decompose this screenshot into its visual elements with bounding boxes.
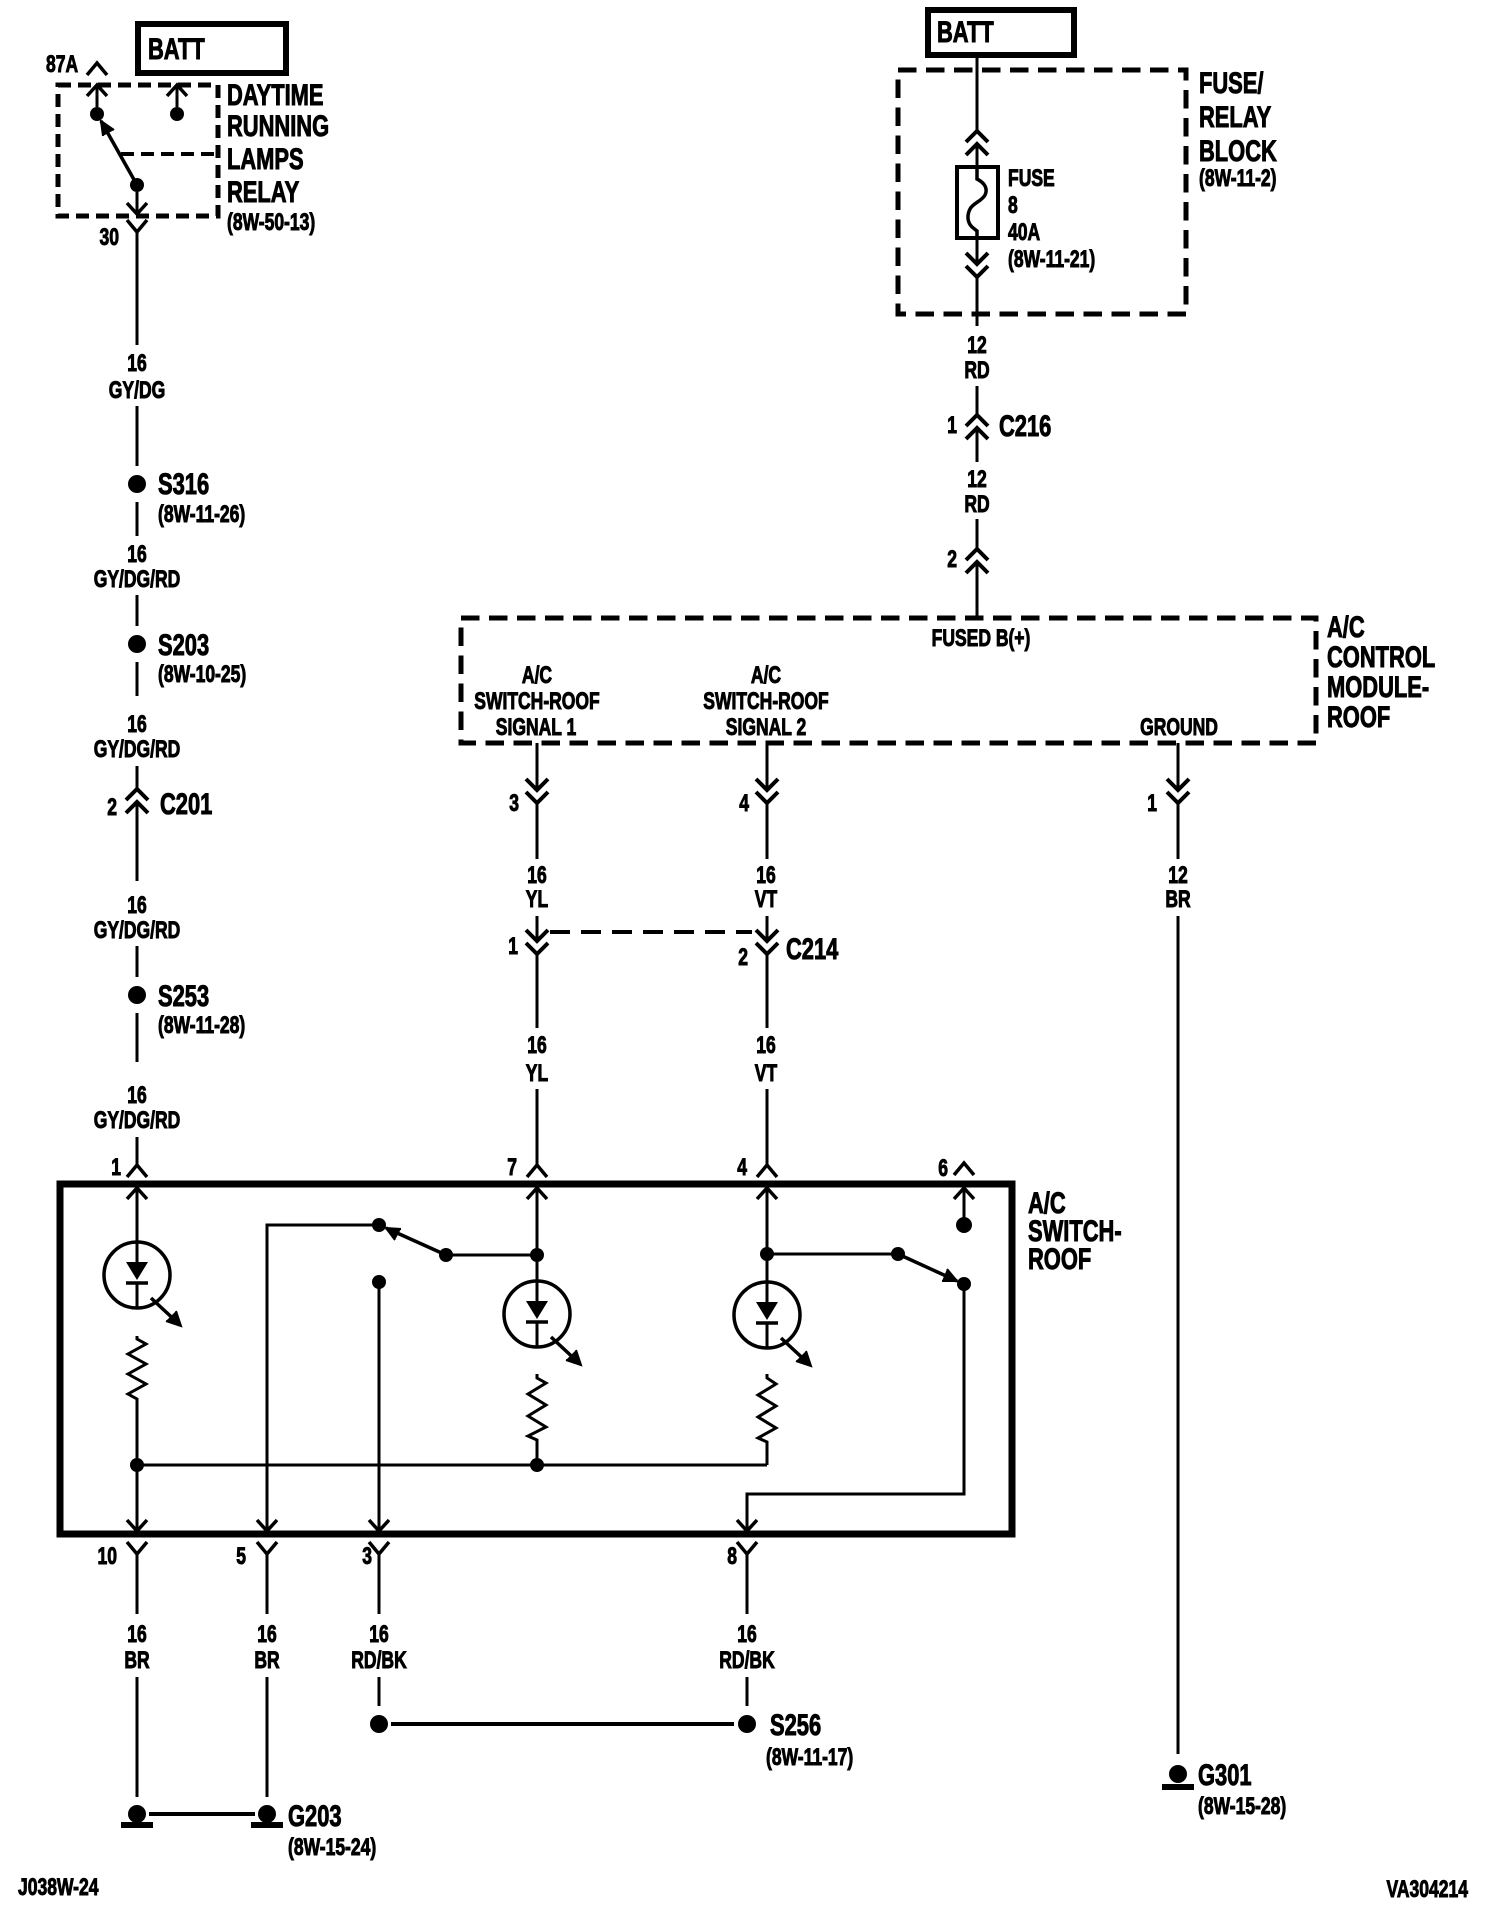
A/C control module-roof box	[461, 618, 1316, 743]
in-block connector (double chevron) above fuse	[966, 131, 988, 155]
svg-text:C216: C216	[999, 409, 1051, 443]
wire 16 BR (pin 5 to G203)	[254, 1554, 279, 1797]
svg-text:(8W-11-2): (8W-11-2)	[1199, 165, 1276, 191]
fuse/relay block box	[898, 70, 1186, 314]
connector Y at switch pin 10	[98, 1542, 147, 1570]
label A/C CONTROL MODULE-ROOF	[1327, 610, 1435, 734]
wire R1 to junction	[136, 1402, 139, 1465]
label pin 30	[100, 224, 119, 250]
svg-text:C201: C201	[160, 787, 212, 821]
wire 16 VT (module pin 4 to C214 pin 2)	[755, 803, 778, 941]
svg-text:GY/DG/RD: GY/DG/RD	[94, 917, 181, 943]
svg-text:J038W-24: J038W-24	[18, 1874, 99, 1900]
svg-text:(8W-50-13): (8W-50-13)	[227, 209, 315, 235]
wire 12 RD (C216 to module pin 2)	[964, 428, 989, 549]
svg-text:YL: YL	[526, 1060, 549, 1086]
switch 2 arm	[898, 1254, 957, 1281]
wire contact to switch pin 5	[267, 1225, 379, 1531]
svg-text:16: 16	[257, 1621, 276, 1647]
wire 16 GY/DG/RD (S203 to C201)	[94, 662, 181, 789]
svg-text:BATT: BATT	[937, 15, 994, 49]
svg-text:16: 16	[737, 1621, 756, 1647]
svg-text:16: 16	[127, 541, 146, 567]
connector Y at switch pin 1	[111, 1154, 147, 1180]
svg-text:BR: BR	[1165, 886, 1190, 912]
switch 1 feed line	[446, 1254, 537, 1257]
switch 2 movable contact dot	[891, 1247, 905, 1261]
svg-text:3: 3	[509, 790, 519, 816]
svg-text:RD/BK: RD/BK	[351, 1647, 406, 1673]
svg-text:16: 16	[127, 1621, 146, 1647]
svg-text:G203: G203	[288, 1799, 342, 1833]
module connector pin 2 (double chevron)	[947, 546, 988, 573]
svg-text:FUSE/: FUSE/	[1199, 66, 1264, 100]
svg-text:16: 16	[527, 862, 546, 888]
wire switch 2 contact to pin 8	[747, 1284, 964, 1531]
switch 1 contact dot (to pin 3)	[372, 1275, 386, 1289]
label 87A	[46, 51, 78, 77]
svg-text:12: 12	[1168, 862, 1187, 888]
svg-text:SWITCH-ROOF: SWITCH-ROOF	[703, 688, 829, 714]
wire 16 GY/DG/RD (S316 to S203)	[94, 502, 181, 626]
switch pin 7 arrow	[527, 1188, 547, 1255]
switch pin 4 arrow	[757, 1188, 777, 1254]
connector Y at switch pin 5	[236, 1542, 277, 1570]
switch 1 contact dot (to pin 5)	[372, 1218, 386, 1232]
relay pin 86/BATT terminal (arrow and contact dot)	[167, 85, 187, 121]
ground G301	[1162, 1758, 1286, 1820]
svg-text:1: 1	[508, 933, 518, 959]
svg-text:(8W-11-26): (8W-11-26)	[158, 501, 245, 527]
svg-text:1: 1	[111, 1154, 121, 1180]
svg-text:(8W-11-28): (8W-11-28)	[158, 1012, 245, 1038]
wire fuse to in-block connector	[976, 238, 979, 264]
svg-text:40A: 40A	[1008, 219, 1040, 245]
svg-text:A/C: A/C	[522, 662, 552, 688]
switch 1 movable contact dot	[439, 1248, 453, 1262]
svg-text:(8W-11-21): (8W-11-21)	[1008, 246, 1095, 272]
svg-text:C214: C214	[786, 932, 839, 966]
relay pin 30 arrow	[127, 192, 147, 214]
svg-text:(8W-11-17): (8W-11-17)	[766, 1744, 853, 1770]
label A/C SWITCH-ROOF SIGNAL 1	[474, 662, 600, 740]
switch 2 contact dot (to pin 8)	[957, 1277, 971, 1291]
svg-text:8: 8	[727, 1543, 737, 1569]
wire 12 RD (fuse block to C216)	[964, 277, 989, 415]
svg-text:(8W-10-25): (8W-10-25)	[158, 661, 246, 687]
svg-text:8: 8	[1008, 192, 1018, 218]
svg-text:6: 6	[938, 1155, 948, 1181]
svg-text:LAMPS: LAMPS	[227, 142, 304, 176]
svg-text:7: 7	[507, 1154, 517, 1180]
svg-text:RELAY: RELAY	[227, 175, 300, 209]
connector C214 pin 1	[508, 930, 548, 960]
svg-text:G301: G301	[1198, 1758, 1252, 1792]
connector C201 pin 2	[107, 787, 212, 821]
svg-text:(8W-15-24): (8W-15-24)	[288, 1834, 376, 1860]
wire R3 to junction bus	[766, 1446, 769, 1465]
svg-text:FUSE: FUSE	[1008, 165, 1055, 191]
junction dot pin 10 branch	[130, 1458, 144, 1472]
wire 16 GY/DG/RD (S253 to A/C switch pin 1)	[94, 1013, 181, 1165]
lamp LED1 (switch illumination)	[104, 1242, 181, 1326]
wire BATT to fuse block connector	[976, 58, 979, 131]
wire pin 2 into module	[976, 562, 979, 618]
wire pin 4 to LED3	[766, 1254, 769, 1282]
svg-text:BLOCK: BLOCK	[1199, 134, 1277, 168]
wire pin 7 to LED2	[536, 1255, 539, 1281]
power feed box BATT (right)	[928, 10, 1074, 55]
svg-text:S203: S203	[158, 628, 209, 662]
label DAYTIME RUNNING LAMPS RELAY (8W-50-13)	[227, 78, 329, 236]
svg-text:3: 3	[362, 1543, 372, 1569]
svg-text:87A: 87A	[46, 51, 78, 77]
svg-text:RELAY: RELAY	[1199, 100, 1272, 134]
svg-text:SIGNAL 2: SIGNAL 2	[726, 714, 806, 740]
connector C214 pin 2	[738, 930, 838, 971]
connector C214 dashed tie line	[550, 930, 752, 934]
wire 16 GY/DG/RD (C201 to S253)	[94, 802, 181, 977]
svg-text:4: 4	[739, 790, 749, 816]
svg-text:30: 30	[100, 224, 119, 250]
relay common contact dot	[130, 178, 144, 192]
ground G203	[121, 1799, 376, 1861]
power feed box BATT (left)	[138, 24, 286, 73]
switch pin 8 exit arrow	[737, 1520, 757, 1531]
svg-text:ROOF: ROOF	[1028, 1242, 1091, 1276]
svg-text:A/C: A/C	[751, 662, 781, 688]
wire R2 to junction	[536, 1443, 539, 1465]
switch 2 feed line	[767, 1253, 898, 1256]
svg-text:BR: BR	[254, 1647, 279, 1673]
svg-text:16: 16	[527, 1032, 546, 1058]
svg-text:2: 2	[738, 944, 748, 970]
svg-text:YL: YL	[526, 886, 549, 912]
switch pin 1 arrow	[127, 1188, 147, 1242]
wire 16 BR (pin 10 to G203)	[124, 1554, 149, 1797]
footer drawing number VA304214	[1387, 1876, 1469, 1902]
svg-text:GY/DG: GY/DG	[109, 377, 165, 403]
svg-text:1: 1	[947, 412, 957, 438]
svg-text:VA304214: VA304214	[1387, 1876, 1469, 1902]
relay internal dashed divider	[121, 152, 218, 156]
lamp LED2 (A/C indicator 1)	[504, 1281, 581, 1365]
label GROUND	[1140, 714, 1218, 740]
wire 16 YL (module pin 3 to C214 pin 1)	[526, 803, 549, 941]
wire 16 RD/BK (pin 3 to S256)	[351, 1554, 406, 1706]
connector Y at switch pin 3	[362, 1542, 389, 1570]
wire 16 YL (C214 to switch pin 7)	[526, 954, 549, 1165]
svg-text:RD: RD	[964, 357, 989, 383]
wire contact to switch pin 3	[378, 1282, 381, 1531]
splice S256	[370, 1708, 853, 1771]
module pin 4 connector	[739, 743, 778, 817]
svg-text:16: 16	[756, 1032, 775, 1058]
switch 1 arm	[386, 1228, 446, 1255]
wire 16 RD/BK (pin 8 to S256)	[719, 1554, 774, 1706]
svg-text:16: 16	[127, 350, 146, 376]
svg-text:SIGNAL 1: SIGNAL 1	[496, 714, 577, 740]
relay pin 87A terminal (arrow and contact dot)	[87, 85, 107, 121]
in-block connector (double chevron) below fuse	[966, 253, 988, 277]
ground wire 12 BR (module pin 1 to G301)	[1165, 803, 1190, 1754]
svg-text:(8W-15-28): (8W-15-28)	[1198, 1793, 1286, 1819]
relay switch arm (movable contact)	[101, 121, 137, 185]
svg-text:2: 2	[947, 546, 957, 572]
svg-text:GY/DG/RD: GY/DG/RD	[94, 736, 181, 762]
svg-text:RUNNING: RUNNING	[227, 109, 329, 143]
wire 16 GY/DG (relay pin 30 to S316)	[109, 232, 165, 466]
footer sheet code J038W-24	[18, 1874, 99, 1900]
junction bus (common return)	[137, 1464, 767, 1467]
connector C216 pin 1	[947, 409, 1051, 443]
wire 16 VT (C214 to switch pin 4)	[755, 954, 778, 1165]
fuse 8 40A	[957, 165, 1095, 272]
svg-text:S256: S256	[770, 1708, 821, 1742]
svg-text:16: 16	[127, 711, 146, 737]
svg-text:FUSED B(+): FUSED B(+)	[932, 625, 1031, 651]
svg-text:12: 12	[967, 466, 986, 492]
svg-text:16: 16	[369, 1621, 388, 1647]
svg-text:RD/BK: RD/BK	[719, 1647, 774, 1673]
splice S203	[128, 628, 246, 688]
svg-text:10: 10	[98, 1543, 117, 1569]
svg-text:16: 16	[127, 1082, 146, 1108]
A/C switch-roof box	[60, 1184, 1012, 1534]
wire connector to fuse 8	[976, 144, 979, 167]
switch pin 6 chevron	[938, 1155, 974, 1181]
splice S316	[128, 467, 245, 528]
svg-text:ROOF: ROOF	[1327, 700, 1390, 734]
svg-text:RD: RD	[964, 491, 989, 517]
svg-text:VT: VT	[755, 886, 778, 912]
svg-text:2: 2	[107, 794, 117, 820]
svg-text:S316: S316	[158, 467, 209, 501]
lamp LED3 (A/C indicator 2)	[734, 1282, 811, 1366]
splice S253	[128, 979, 245, 1039]
svg-text:VT: VT	[755, 1060, 778, 1086]
label FUSE/RELAY BLOCK (8W-11-2)	[1199, 66, 1277, 192]
svg-text:12: 12	[967, 332, 986, 358]
svg-text:GY/DG/RD: GY/DG/RD	[94, 1107, 181, 1133]
relay pin 30 connector Y	[127, 220, 147, 232]
svg-text:16: 16	[756, 862, 775, 888]
svg-text:BR: BR	[124, 1647, 149, 1673]
wire junction to switch pin 10	[136, 1465, 139, 1531]
junction dot on pin 7 wire	[530, 1248, 544, 1262]
switch pin 5 exit arrow	[257, 1520, 277, 1531]
svg-text:S253: S253	[158, 979, 209, 1013]
resistor R2	[528, 1374, 546, 1443]
connector chevron at relay pin 87A	[87, 63, 107, 75]
svg-text:GY/DG/RD: GY/DG/RD	[94, 566, 181, 592]
relay K1 DAYTIME RUNNING LAMPS RELAY box	[58, 85, 218, 216]
label FUSED B(+)	[932, 625, 1031, 651]
resistor R1	[128, 1336, 146, 1402]
svg-text:GROUND: GROUND	[1140, 714, 1218, 740]
svg-text:DAYTIME: DAYTIME	[227, 78, 323, 112]
module ground pin 1 connector	[1147, 743, 1189, 817]
connector Y at switch pin 7	[507, 1154, 547, 1180]
svg-text:1: 1	[1147, 790, 1157, 816]
svg-text:BATT: BATT	[148, 32, 205, 66]
svg-text:16: 16	[127, 892, 146, 918]
connector Y at switch pin 8	[727, 1542, 757, 1570]
module pin 3 connector	[509, 743, 548, 817]
junction dot on pin 4 wire	[760, 1247, 774, 1261]
svg-text:5: 5	[236, 1543, 246, 1569]
switch pin 3 exit arrow	[369, 1520, 389, 1531]
svg-text:4: 4	[737, 1154, 747, 1180]
switch pin 10 exit arrow	[127, 1520, 147, 1531]
resistor R3	[758, 1374, 776, 1446]
switch pin 6 stub (arrow and dot)	[954, 1188, 974, 1233]
label A/C SWITCH-ROOF	[1028, 1186, 1122, 1276]
label A/C SWITCH-ROOF SIGNAL 2	[703, 662, 829, 740]
junction dot R2 branch	[530, 1458, 544, 1472]
connector Y at switch pin 4	[737, 1154, 777, 1180]
svg-text:SWITCH-ROOF: SWITCH-ROOF	[474, 688, 600, 714]
